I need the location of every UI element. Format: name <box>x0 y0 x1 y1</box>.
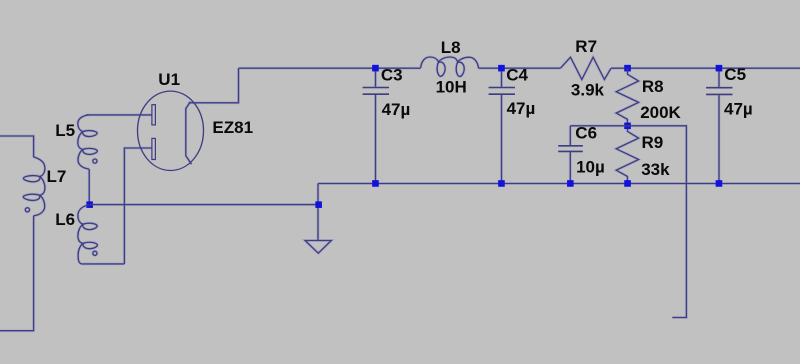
svg-text:L5: L5 <box>55 121 75 140</box>
svg-text:C5: C5 <box>724 65 746 84</box>
svg-text:EZ81: EZ81 <box>212 118 253 137</box>
svg-text:200K: 200K <box>640 103 681 122</box>
svg-text:C4: C4 <box>506 65 528 84</box>
svg-text:U1: U1 <box>158 70 180 89</box>
svg-text:10µ: 10µ <box>576 157 605 176</box>
svg-text:R8: R8 <box>642 77 664 96</box>
svg-text:47µ: 47µ <box>382 100 411 119</box>
svg-text:C6: C6 <box>575 123 597 142</box>
svg-text:L7: L7 <box>47 167 67 186</box>
svg-text:L8: L8 <box>441 38 461 57</box>
svg-text:C3: C3 <box>381 66 403 85</box>
svg-text:L6: L6 <box>55 210 75 229</box>
svg-text:R9: R9 <box>642 133 664 152</box>
svg-text:47µ: 47µ <box>724 99 753 118</box>
svg-text:10H: 10H <box>436 77 467 96</box>
svg-text:R7: R7 <box>575 37 597 56</box>
svg-text:33k: 33k <box>641 160 670 179</box>
svg-text:47µ: 47µ <box>507 99 536 118</box>
svg-text:3.9k: 3.9k <box>571 80 605 99</box>
